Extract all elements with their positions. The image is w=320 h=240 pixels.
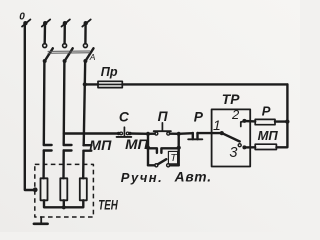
wire pin3 to MP coil <box>244 146 255 148</box>
wire C to P <box>130 132 148 135</box>
wire branch left vertical <box>147 134 149 165</box>
wire L3 to switch <box>84 23 87 43</box>
relay contact R <box>179 133 212 139</box>
svg-text:Р: Р <box>262 103 271 118</box>
relay coil R <box>255 119 275 124</box>
svg-text:0: 0 <box>19 12 25 23</box>
svg-text:3: 3 <box>229 145 237 161</box>
start button P <box>146 123 181 136</box>
wire pin2 to R coil <box>244 120 255 123</box>
junction phase3 / fuse line <box>83 82 87 86</box>
svg-text:МП: МП <box>258 128 279 143</box>
heater element 2 <box>60 178 67 200</box>
terminal L3 <box>82 19 90 26</box>
junction branch left <box>146 146 150 150</box>
junction right <box>285 119 289 123</box>
wire phase3 down <box>84 61 86 145</box>
junction branch right <box>177 146 181 150</box>
MP main contact 3 <box>83 145 91 178</box>
terminal L2 <box>62 19 70 26</box>
thermostat box T <box>168 151 178 164</box>
svg-text:2: 2 <box>231 107 240 122</box>
svg-text:Пр: Пр <box>101 64 118 79</box>
ground <box>34 217 48 224</box>
wire branch right vertical <box>177 134 179 165</box>
wire phase1 down <box>43 61 46 145</box>
svg-text:П: П <box>158 109 169 124</box>
wire neutral 0 down and to tank <box>25 23 35 190</box>
wire L1 to switch <box>44 23 47 43</box>
heater element 1 <box>41 178 48 200</box>
wire L2 to switch <box>63 23 66 43</box>
control line from phase2 <box>64 132 119 134</box>
MP main contact 2 <box>64 145 72 178</box>
switch A pole 1 <box>43 44 53 63</box>
MP main contact 1 <box>44 145 52 178</box>
contactor coil MP <box>255 144 276 149</box>
svg-text:МП: МП <box>89 137 112 153</box>
svg-text:Ручн.: Ручн. <box>121 170 163 185</box>
svg-text:A: A <box>89 52 96 62</box>
TR blade <box>222 133 240 141</box>
TR pin 1 <box>212 132 222 134</box>
node 0 terminal <box>22 19 30 26</box>
wire R coil right <box>275 120 287 122</box>
terminal L1 <box>42 19 50 26</box>
switch A pole 2 <box>63 44 73 63</box>
switch A linkage bar <box>48 51 90 53</box>
heater element 3 <box>80 178 87 200</box>
svg-text:ТР: ТР <box>222 92 240 107</box>
thermostat contact T <box>148 159 179 167</box>
MP auxiliary contact <box>148 148 179 153</box>
svg-text:ТЕН: ТЕН <box>98 197 118 212</box>
thermal regulator TR box <box>212 109 251 166</box>
svg-text:1: 1 <box>213 117 221 133</box>
wire right side down <box>276 84 287 147</box>
stop button C <box>117 127 132 137</box>
fuse Pr <box>98 81 122 87</box>
svg-text:Р: Р <box>194 109 204 124</box>
TR pin 2 <box>241 119 247 127</box>
wire fuse to right <box>122 83 287 85</box>
junction dot on tank edge <box>33 187 38 192</box>
heater bottom bus <box>44 200 83 209</box>
svg-text:Авт.: Авт. <box>174 169 212 184</box>
heater TEN box dashed <box>35 164 94 217</box>
svg-text:МП: МП <box>125 136 149 152</box>
wire phase2 down <box>63 61 66 145</box>
TR pin 3 <box>238 144 246 150</box>
wire to fuse <box>85 83 98 85</box>
switch A pole 3 <box>83 44 93 63</box>
svg-text:С: С <box>119 109 130 124</box>
